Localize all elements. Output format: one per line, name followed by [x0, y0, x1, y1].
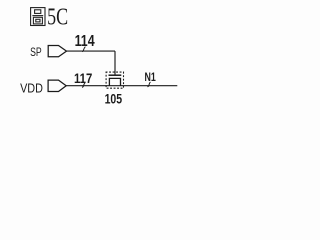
figure label glyph 圖 (drawn)	[31, 8, 45, 26]
tick on node N1 wire	[147, 82, 150, 87]
svg-text:VDD: VDD	[20, 81, 43, 95]
transistor 105 gate bar	[109, 74, 122, 76]
tick on wire 117	[82, 83, 85, 87]
tick on wire 114	[82, 47, 85, 52]
svg-text:105: 105	[105, 91, 123, 107]
connector VDD (input terminal)	[48, 80, 66, 91]
wire rail VDD to N1	[66, 85, 177, 87]
transistor 105 dashed box	[106, 72, 123, 88]
connector SP (input terminal)	[48, 46, 66, 57]
wire 114 horizontal	[67, 50, 116, 52]
svg-text:5C: 5C	[47, 3, 68, 30]
svg-text:SP: SP	[30, 45, 42, 59]
transistor 105 channel	[109, 78, 120, 85]
svg-text:117: 117	[74, 71, 92, 87]
wire 114 vertical down to gate	[114, 51, 116, 75]
